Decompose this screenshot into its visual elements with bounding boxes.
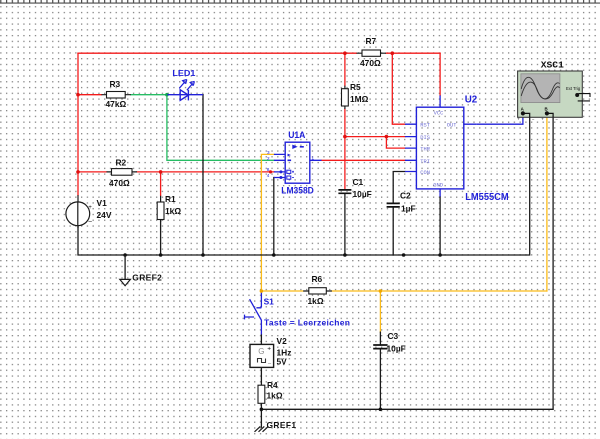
svg-text:R7: R7 — [366, 36, 377, 46]
source V1 — [66, 195, 112, 228]
wire: R1 top red — [160, 172, 162, 196]
svg-text:B: B — [545, 107, 548, 112]
wire: U1A out to TRI red — [322, 159, 405, 161]
svg-text:10µF: 10µF — [353, 189, 372, 199]
svg-text:Ext Trig: Ext Trig — [566, 86, 581, 91]
svg-text:LM358D: LM358D — [281, 186, 314, 196]
wire: black bottom rail 2 — [261, 114, 553, 410]
wire: left red vertical — [77, 53, 79, 195]
junction at R2 tap (78,171.9) — [76, 170, 80, 174]
svg-text:4: 4 — [267, 173, 270, 178]
svg-text:TRI: TRI — [420, 159, 430, 165]
svg-text:24V: 24V — [97, 210, 112, 220]
wire: R2 right red to U1A pin8 — [137, 171, 274, 173]
svg-text:RST: RST — [420, 123, 430, 129]
svg-text:DIS: DIS — [420, 135, 430, 141]
wire: black C3 leads — [379, 332, 381, 409]
svg-text:U2: U2 — [465, 94, 478, 105]
svg-text:+: + — [88, 204, 92, 211]
svg-text:XSC1: XSC1 — [541, 60, 564, 71]
LED LED1 — [167, 80, 203, 101]
junction ground rail (403.6,255) — [402, 253, 406, 257]
resistor R1 — [157, 194, 181, 222]
wire: U2 OUT blue to scope A — [476, 115, 523, 125]
svg-text:1kΩ: 1kΩ — [267, 390, 283, 400]
junction at R1 top (160.6,171.9) — [159, 170, 163, 174]
svg-text:+: + — [517, 117, 520, 122]
svg-text:GREF1: GREF1 — [267, 420, 297, 430]
resistor R3 — [102, 79, 131, 109]
wire: R2 left red — [78, 171, 107, 173]
wire: R5 column red — [344, 53, 346, 190]
svg-text:3: 3 — [267, 150, 270, 155]
junction ground rail at R1 (160.6,255) — [159, 253, 163, 257]
ground GREF1 — [255, 420, 297, 432]
wire: yellow up to scope B — [546, 115, 548, 292]
wire: yellow R6 row — [261, 290, 547, 292]
ground GREF2 — [120, 255, 162, 286]
svg-text:LED1: LED1 — [172, 68, 195, 78]
junction lower rail at R4 (261.4,409.3) — [260, 408, 264, 412]
pin dot U1A pin 4 — [279, 176, 282, 179]
resistor R2 — [107, 158, 138, 189]
svg-text:+: + — [541, 117, 544, 122]
svg-text:THR: THR — [420, 147, 430, 153]
top ruler — [0, 0, 600, 3]
svg-text:GREF2: GREF2 — [132, 273, 162, 283]
svg-text:GND: GND — [433, 182, 443, 188]
wire: R3 left red — [78, 94, 102, 96]
svg-text:S1: S1 — [264, 297, 275, 307]
wire: black S1 to V2 — [260, 335, 262, 345]
junction ground rail at U1A pin4 (273.8,255) — [272, 253, 276, 257]
svg-text:2: 2 — [267, 156, 270, 161]
capacitor C2 — [387, 190, 416, 213]
svg-text:−: − — [88, 219, 92, 226]
resistor R6 — [303, 274, 332, 306]
svg-text:1kΩ: 1kΩ — [165, 206, 181, 216]
capacitor C1 — [338, 177, 371, 199]
timer U2 — [405, 94, 509, 203]
wire: green vertical and to U1A pin2 — [167, 95, 274, 161]
wire: yellow C3 stub — [379, 291, 381, 332]
wire: yellow U1A pin3 down to S1/R6 node — [261, 154, 274, 292]
junction ground rail at LED drop (203,255) — [201, 253, 205, 257]
svg-text:−: − — [532, 117, 535, 122]
pin dot U1A pin 8 — [279, 170, 282, 173]
wire: green R3 to LED — [131, 94, 167, 96]
wire: DIS red — [345, 136, 405, 138]
wire: THR red — [386, 137, 405, 149]
svg-text:−: − — [268, 361, 272, 368]
junction at R3 tap (78,94.7) — [76, 93, 80, 97]
svg-text:470Ω: 470Ω — [109, 178, 130, 188]
svg-text:R4: R4 — [267, 380, 278, 390]
svg-text:R2: R2 — [116, 158, 127, 168]
svg-text:U1A: U1A — [288, 130, 306, 140]
op-amp U1A — [267, 130, 322, 195]
svg-text:Taste = Leerzeichen: Taste = Leerzeichen — [264, 318, 350, 328]
junction ground rail at U2 GND (440.1,255) — [438, 253, 442, 257]
wire: black U1A pin4 drop — [273, 178, 275, 256]
resistor R5 — [342, 82, 369, 109]
wire: top red rail — [78, 52, 440, 54]
wire: black LED cathode drop — [202, 95, 204, 255]
junction at R5 top rail (344.9,53.2) — [343, 51, 347, 55]
resistor R4 — [258, 380, 283, 404]
wire: RST red — [392, 53, 405, 124]
U1A pin stubs — [274, 154, 322, 177]
svg-text:47kΩ: 47kΩ — [106, 99, 127, 109]
svg-text:C1: C1 — [353, 177, 364, 187]
wire: black R1 bottom — [160, 220, 162, 256]
resistor R7 — [357, 36, 387, 68]
svg-text:OUT: OUT — [447, 123, 457, 129]
svg-text:C2: C2 — [400, 190, 411, 200]
svg-text:R1: R1 — [165, 194, 176, 204]
junction at DIS node (344.9,136.6) — [343, 135, 347, 139]
svg-text:V2: V2 — [277, 336, 288, 346]
junction yellow at C3 top (380.4,291) — [379, 289, 383, 293]
svg-text:G: G — [258, 347, 264, 356]
junction lower rail at C3 (380.4,409.3) — [379, 408, 383, 412]
svg-text:VCC: VCC — [434, 111, 444, 117]
wire: black C1 bottom — [344, 193, 346, 255]
svg-text:1MΩ: 1MΩ — [350, 94, 369, 104]
svg-text:5V: 5V — [277, 357, 288, 367]
junction yellow at S1 top (261.4,291) — [260, 289, 264, 293]
svg-text:1: 1 — [312, 156, 315, 161]
svg-text:R6: R6 — [312, 274, 323, 284]
svg-text:8: 8 — [267, 167, 270, 172]
junction at U1A pin8 wire (270.5,171.9) — [269, 170, 272, 173]
svg-text:V1: V1 — [97, 198, 108, 208]
wire: black U2 GND drop — [439, 197, 441, 255]
wire: black CON to C2 — [393, 172, 405, 256]
junction ground rail at GREF2 (125.1,255) — [123, 253, 127, 257]
svg-text:+: + — [267, 345, 271, 352]
svg-text:LM555CM: LM555CM — [465, 192, 509, 203]
junction ground rail at C1 (344.9,255) — [343, 253, 347, 257]
svg-text:CON: CON — [420, 170, 430, 176]
capacitor C3 — [373, 331, 406, 354]
svg-text:−: − — [555, 117, 558, 122]
wire: VCC red drop — [439, 53, 441, 95]
junction at THR branch (386.4,136.6) — [385, 135, 389, 139]
switch S1 — [245, 293, 262, 335]
svg-text:470Ω: 470Ω — [360, 58, 381, 68]
svg-text:1µF: 1µF — [401, 203, 416, 213]
svg-text:1kΩ: 1kΩ — [308, 296, 324, 306]
junction at RST drop (392.3,53.2) — [391, 51, 395, 55]
wire: black bottom rail 1 — [78, 118, 530, 256]
svg-text:R3: R3 — [110, 79, 121, 89]
wire: black V2 to R4 to GREF1 — [260, 367, 262, 427]
junction green at LED anode (166.9,94.7) — [165, 93, 169, 97]
svg-text:R5: R5 — [350, 82, 361, 92]
source V2 — [250, 336, 291, 367]
oscilloscope XSC1 — [517, 60, 590, 122]
svg-text:C3: C3 — [388, 331, 399, 341]
svg-text:10µF: 10µF — [387, 343, 406, 353]
